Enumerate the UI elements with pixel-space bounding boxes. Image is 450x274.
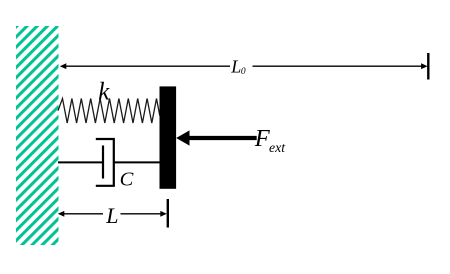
L left arrowhead xyxy=(58,211,65,217)
svg-text:C: C xyxy=(120,168,134,190)
damper cylinder (open left) xyxy=(96,139,114,186)
svg-text:ext: ext xyxy=(269,140,286,155)
wire L dimension line right segment xyxy=(121,213,163,215)
wire L0 dimension line right segment xyxy=(253,65,424,67)
damper rod to mass xyxy=(114,161,160,163)
wire L0 dimension line left segment xyxy=(64,65,230,67)
mass bar xyxy=(160,86,177,188)
L0 left arrowhead xyxy=(60,63,67,69)
svg-text:L: L xyxy=(105,203,118,228)
spring k xyxy=(58,99,160,124)
damper rod from wall xyxy=(58,161,103,163)
L right arrowhead xyxy=(160,211,167,217)
svg-text:k: k xyxy=(98,79,110,106)
L0 end tick xyxy=(427,53,429,80)
wire L dimension line left segment xyxy=(62,213,103,215)
force arrowhead xyxy=(176,130,189,145)
svg-text:L: L xyxy=(230,57,241,77)
L end tick xyxy=(167,199,169,228)
damper piston plate xyxy=(102,146,104,179)
wall (hatched fixed support) xyxy=(16,26,59,245)
svg-text:0: 0 xyxy=(241,67,246,77)
L0 right arrowhead xyxy=(421,63,428,69)
force arrow shaft xyxy=(188,136,257,140)
